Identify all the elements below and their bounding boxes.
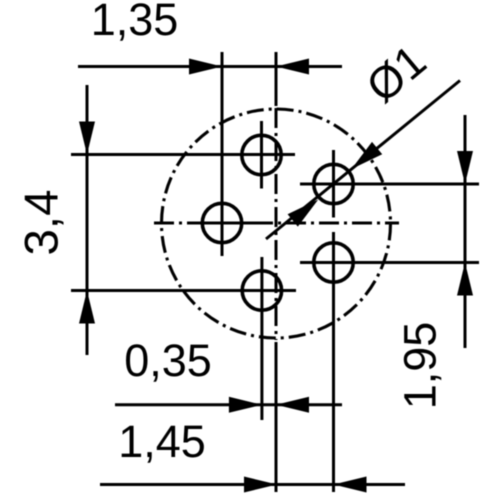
arrow 1,35 right bbox=[276, 59, 309, 75]
pin right-top cross vertical bbox=[332, 150, 335, 218]
pin right-bottom cross vertical (with extension line to 1,45 dim) bbox=[332, 232, 335, 492]
arrow 0,35 left bbox=[229, 397, 262, 413]
pin right-bottom cross horizontal (with extension line to 1,95 dim) bbox=[300, 261, 479, 264]
pin left cross vertical (with extension line to 1,35 dim) bbox=[221, 52, 224, 256]
svg-text:1,35: 1,35 bbox=[91, 0, 179, 45]
dimension line 3,4 bbox=[86, 85, 89, 355]
pin bottom circle bbox=[242, 271, 281, 310]
dimension line 0,35 bbox=[115, 403, 342, 406]
svg-text:1,95: 1,95 bbox=[395, 322, 446, 410]
center column extension line above circle bbox=[275, 52, 278, 106]
pin top circle bbox=[242, 135, 281, 174]
arrow 1,35 left bbox=[189, 59, 222, 75]
vertical centerline (dash-dot) bbox=[275, 108, 278, 340]
svg-text:1,45: 1,45 bbox=[118, 416, 206, 467]
svg-text:0,35: 0,35 bbox=[124, 335, 212, 386]
pin left cross horizontal bbox=[188, 222, 256, 225]
arrow 1,95 bottom bbox=[457, 263, 473, 296]
arrow diameter leader lower (points up-right at pin) bbox=[288, 200, 319, 227]
svg-text:3,4: 3,4 bbox=[16, 189, 69, 255]
pin right-top circle bbox=[314, 164, 353, 203]
leader line diameter 1 bbox=[266, 81, 460, 240]
connector outline circle (dash-dot) bbox=[162, 109, 391, 338]
pin bottom cross horizontal (with extension line to 3,4 dim) bbox=[71, 289, 296, 292]
arrow 3,4 top bbox=[79, 122, 95, 155]
dimension line 1,45 bbox=[100, 483, 405, 486]
pin top cross vertical bbox=[260, 121, 263, 189]
pin top cross horizontal (with extension line to 3,4 dim) bbox=[71, 153, 295, 156]
arrow 1,45 right bbox=[334, 477, 367, 493]
pin right-top cross horizontal (with extension line to 1,95 dim) bbox=[300, 183, 479, 186]
dimension line 1,35 bbox=[78, 65, 342, 68]
arrow 0,35 right bbox=[276, 397, 309, 413]
arrow diameter leader upper (points down-left at pin) bbox=[352, 142, 383, 169]
arrow 3,4 bottom bbox=[79, 291, 95, 324]
arrow 1,45 left bbox=[244, 477, 277, 493]
pin bottom cross vertical (with extension line to 0,35 dim) bbox=[260, 257, 263, 420]
pin right-bottom circle bbox=[314, 243, 353, 282]
horizontal centerline (dash-dot) bbox=[154, 222, 399, 225]
pin left circle bbox=[202, 203, 241, 242]
center column extension line below circle bbox=[275, 342, 278, 492]
dimension line 1,95 bbox=[464, 115, 467, 348]
arrow 1,95 top bbox=[457, 151, 473, 184]
